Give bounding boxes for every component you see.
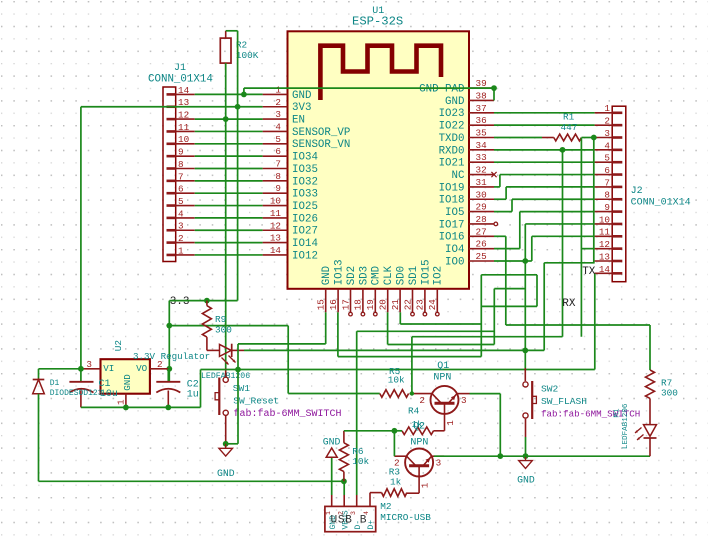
svg-text:5: 5 [604, 153, 610, 164]
svg-text:10k: 10k [352, 456, 369, 467]
svg-text:IO21: IO21 [439, 158, 465, 170]
svg-text:26: 26 [476, 239, 487, 250]
svg-text:IO0: IO0 [445, 256, 464, 268]
svg-text:6: 6 [604, 165, 610, 176]
svg-text:M1: M1 [614, 408, 622, 418]
svg-text:CLK: CLK [383, 265, 395, 285]
svg-text:9: 9 [275, 183, 281, 194]
svg-text:IO34: IO34 [292, 152, 318, 164]
svg-text:3.3V Regulator: 3.3V Regulator [133, 351, 210, 362]
svg-text:1: 1 [445, 420, 456, 426]
svg-text:15: 15 [316, 299, 327, 310]
svg-text:SW_FLASH: SW_FLASH [541, 396, 587, 407]
svg-text:CMD: CMD [371, 266, 383, 285]
svg-text:Q1: Q1 [437, 361, 449, 372]
svg-text:16: 16 [328, 299, 339, 310]
svg-text:31: 31 [476, 177, 488, 188]
svg-text:SD1: SD1 [408, 266, 420, 285]
svg-text:IO5: IO5 [445, 207, 464, 219]
svg-text:4: 4 [604, 140, 610, 151]
svg-text:25: 25 [476, 251, 487, 262]
svg-text:IO15: IO15 [420, 259, 432, 285]
svg-text:CONN_01X14: CONN_01X14 [631, 198, 691, 209]
svg-text:LEDFAB1206: LEDFAB1206 [622, 403, 630, 449]
svg-text:SW1: SW1 [233, 383, 251, 394]
svg-text:J1: J1 [174, 63, 186, 74]
svg-text:18: 18 [353, 299, 364, 310]
svg-text:33: 33 [476, 152, 487, 163]
svg-text:GND: GND [323, 436, 341, 447]
svg-text:3.3: 3.3 [170, 296, 190, 308]
svg-text:23: 23 [415, 299, 426, 310]
svg-text:19: 19 [365, 299, 376, 310]
svg-text:GND-PAD: GND-PAD [419, 84, 464, 96]
svg-text:IO13: IO13 [334, 259, 346, 285]
svg-text:10u: 10u [100, 389, 118, 400]
svg-text:1u: 1u [187, 390, 199, 401]
svg-text:2: 2 [178, 233, 184, 244]
svg-text:100K: 100K [236, 50, 259, 61]
svg-text:6: 6 [178, 184, 184, 195]
svg-text:17: 17 [340, 299, 351, 310]
svg-text:10: 10 [599, 214, 610, 225]
svg-text:IO23: IO23 [439, 108, 465, 120]
svg-text:IO32: IO32 [292, 176, 318, 188]
svg-text:IO19: IO19 [439, 182, 465, 194]
svg-text:3: 3 [436, 458, 442, 469]
svg-text:5: 5 [178, 196, 184, 207]
svg-text:10: 10 [178, 134, 189, 145]
svg-text:NPN: NPN [433, 372, 451, 383]
svg-text:12: 12 [270, 220, 281, 231]
svg-text:VO: VO [136, 363, 148, 374]
svg-text:1k: 1k [390, 476, 402, 487]
svg-text:7: 7 [178, 171, 184, 182]
svg-text:GND: GND [445, 96, 464, 108]
svg-text:3: 3 [275, 109, 281, 120]
svg-text:29: 29 [476, 202, 487, 213]
svg-text:U2: U2 [113, 340, 124, 351]
svg-text:14: 14 [178, 85, 190, 96]
svg-text:27: 27 [476, 226, 487, 237]
svg-text:SD3: SD3 [358, 266, 370, 285]
svg-text:1: 1 [604, 103, 610, 114]
svg-text:R1: R1 [563, 112, 575, 123]
svg-text:1: 1 [178, 245, 184, 256]
svg-text:2: 2 [275, 97, 281, 108]
svg-text:CONN_01X14: CONN_01X14 [148, 74, 213, 86]
svg-text:Q2: Q2 [413, 422, 425, 433]
svg-text:USB B: USB B [331, 515, 368, 527]
svg-text:10: 10 [270, 196, 281, 207]
svg-text:NC: NC [452, 170, 465, 182]
svg-text:J2: J2 [631, 186, 643, 197]
svg-text:1: 1 [420, 482, 431, 488]
svg-text:3V3: 3V3 [292, 102, 311, 114]
svg-text:SW2: SW2 [541, 383, 559, 394]
svg-text:37: 37 [476, 103, 487, 114]
svg-text:SENSOR_VP: SENSOR_VP [292, 127, 350, 139]
svg-text:8: 8 [178, 159, 184, 170]
svg-text:21: 21 [390, 299, 401, 311]
svg-text:SD2: SD2 [346, 266, 358, 285]
svg-text:34: 34 [476, 140, 488, 151]
svg-text:IO2: IO2 [433, 266, 445, 285]
svg-text:20: 20 [378, 299, 389, 310]
svg-text:VI: VI [103, 363, 114, 374]
svg-text:8: 8 [275, 171, 281, 182]
svg-text:TXD0: TXD0 [439, 133, 465, 145]
svg-text:2: 2 [157, 359, 163, 370]
svg-text:4: 4 [275, 121, 281, 132]
svg-text:9: 9 [604, 202, 610, 213]
svg-text:RXD0: RXD0 [439, 145, 465, 157]
svg-text:2: 2 [604, 116, 610, 127]
svg-text:fab:fab-6MM_SWITCH: fab:fab-6MM_SWITCH [234, 408, 342, 420]
svg-text:13: 13 [270, 233, 281, 244]
svg-text:7: 7 [604, 177, 610, 188]
svg-text:12: 12 [599, 239, 610, 250]
svg-text:3: 3 [178, 221, 184, 232]
svg-text:2: 2 [419, 395, 425, 406]
svg-text:12: 12 [178, 110, 189, 121]
svg-text:ESP-32S: ESP-32S [352, 14, 403, 28]
svg-text:RX: RX [562, 298, 576, 310]
svg-text:447: 447 [561, 122, 578, 133]
svg-text:14: 14 [270, 245, 282, 256]
svg-text:IO14: IO14 [292, 238, 318, 250]
svg-text:IO17: IO17 [439, 219, 465, 231]
svg-text:3: 3 [461, 395, 467, 406]
svg-text:IO4: IO4 [445, 244, 464, 256]
svg-text:IO22: IO22 [439, 121, 465, 133]
svg-text:NPN: NPN [410, 438, 428, 449]
svg-text:11: 11 [178, 122, 190, 133]
svg-text:1: 1 [275, 84, 281, 95]
svg-text:GND: GND [517, 475, 535, 486]
svg-text:24: 24 [427, 299, 438, 311]
svg-text:EN: EN [292, 115, 305, 127]
svg-text:35: 35 [476, 128, 487, 139]
svg-text:300: 300 [661, 388, 678, 399]
svg-text:SD0: SD0 [396, 266, 408, 285]
svg-text:13: 13 [599, 251, 610, 262]
svg-text:36: 36 [476, 115, 487, 126]
svg-text:IO18: IO18 [439, 195, 465, 207]
svg-text:R9: R9 [215, 314, 226, 325]
svg-text:SENSOR_VN: SENSOR_VN [292, 139, 350, 151]
svg-text:D+: D+ [367, 520, 376, 530]
svg-text:GND: GND [292, 90, 311, 102]
svg-text:IO35: IO35 [292, 164, 318, 176]
svg-text:DIODESOD123: DIODESOD123 [50, 389, 103, 398]
svg-text:GND: GND [217, 468, 235, 479]
svg-text:10k: 10k [388, 375, 405, 386]
svg-text:38: 38 [476, 90, 487, 101]
svg-text:7: 7 [275, 159, 281, 170]
svg-text:IO12: IO12 [292, 250, 318, 262]
svg-text:11: 11 [270, 208, 282, 219]
svg-text:9: 9 [178, 147, 184, 158]
svg-text:300: 300 [215, 325, 232, 336]
svg-text:14: 14 [599, 264, 611, 275]
svg-text:28: 28 [476, 214, 487, 225]
svg-text:5: 5 [275, 134, 281, 145]
svg-text:22: 22 [402, 299, 413, 310]
svg-text:3: 3 [604, 128, 610, 139]
svg-text:11: 11 [599, 227, 611, 238]
svg-text:32: 32 [476, 165, 487, 176]
svg-text:MICRO-USB: MICRO-USB [380, 512, 431, 523]
svg-text:IO26: IO26 [292, 213, 318, 225]
svg-text:D1: D1 [50, 379, 60, 388]
svg-text:IO27: IO27 [292, 226, 318, 238]
svg-text:M2: M2 [380, 501, 391, 512]
svg-text:GND: GND [321, 266, 333, 285]
svg-text:SW_Reset: SW_Reset [233, 395, 279, 406]
svg-text:R4: R4 [408, 406, 420, 417]
svg-text:IO16: IO16 [439, 232, 465, 244]
svg-text:TX: TX [582, 266, 596, 278]
svg-text:IO33: IO33 [292, 189, 318, 201]
svg-text:IO25: IO25 [292, 201, 318, 213]
svg-text:30: 30 [476, 189, 487, 200]
svg-text:6: 6 [275, 146, 281, 157]
svg-text:8: 8 [604, 190, 610, 201]
svg-text:GND: GND [122, 374, 133, 391]
svg-text:4: 4 [178, 208, 184, 219]
svg-text:3: 3 [86, 359, 92, 370]
